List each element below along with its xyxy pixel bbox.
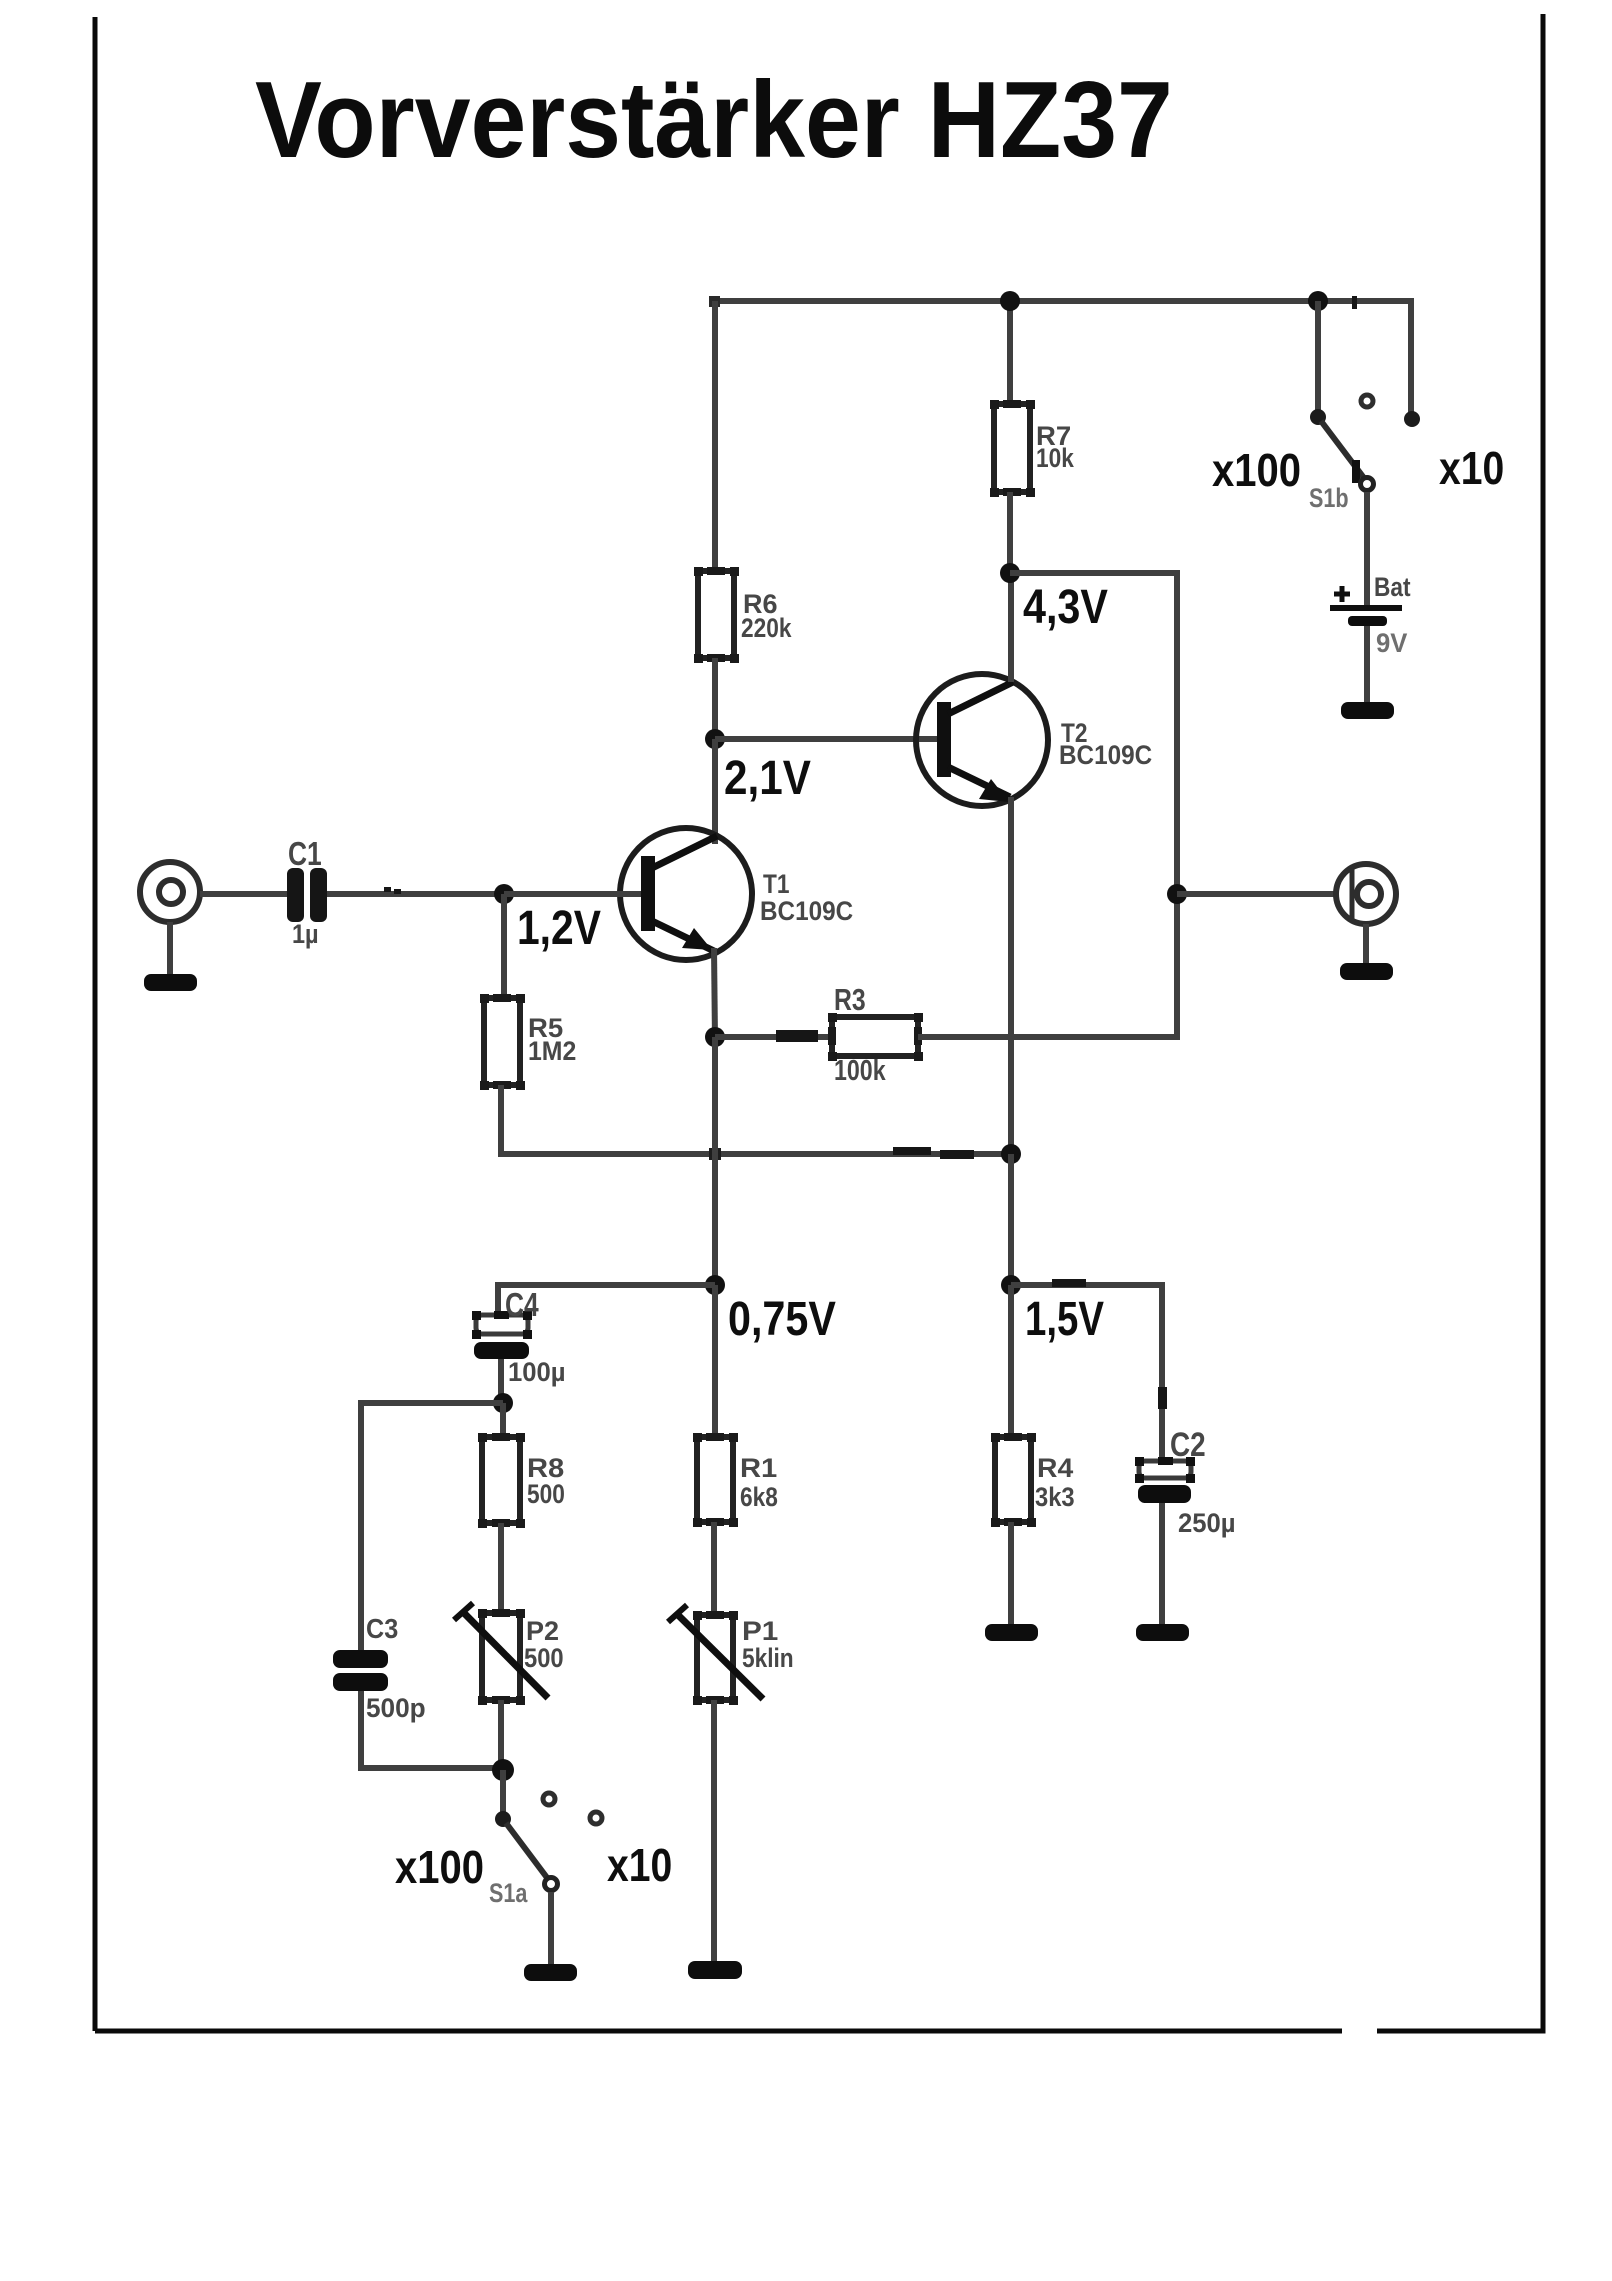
transistor T2 bbox=[916, 674, 1152, 806]
wire output connector ground lead bbox=[1363, 924, 1369, 963]
svg-text:0,75V: 0,75V bbox=[728, 1292, 836, 1346]
svg-text:100k: 100k bbox=[834, 1053, 886, 1086]
svg-text:4,3V: 4,3V bbox=[1023, 580, 1108, 634]
wire R6 top bbox=[712, 301, 718, 575]
node T1 base-T2 junction 2,1V bbox=[705, 729, 725, 749]
wire C3 lower arm bbox=[361, 1691, 503, 1768]
capacitor C4 bbox=[472, 1287, 566, 1387]
wire scan smudge bottom rail bbox=[893, 1147, 974, 1159]
wire R3 left bbox=[715, 1034, 832, 1040]
wire R8 bottom bbox=[498, 1523, 504, 1613]
svg-text:R3: R3 bbox=[834, 982, 866, 1016]
node output junction bbox=[1167, 884, 1187, 904]
svg-text:x10: x10 bbox=[607, 1840, 672, 1892]
svg-text:250µ: 250µ bbox=[1178, 1507, 1236, 1538]
wire C2 bottom bbox=[1159, 1503, 1165, 1624]
svg-text:x100: x100 bbox=[1212, 445, 1301, 496]
border frame bbox=[95, 14, 1543, 2031]
wire S1b to battery bbox=[1364, 492, 1370, 605]
wire R7 bottom bbox=[1007, 492, 1013, 573]
svg-text:S1a: S1a bbox=[489, 1879, 528, 1909]
svg-text:BC109C: BC109C bbox=[760, 897, 853, 926]
capacitor C2 bbox=[1135, 1425, 1236, 1538]
svg-text:BC109C: BC109C bbox=[1059, 741, 1152, 770]
wire R1 bottom bbox=[711, 1522, 717, 1615]
svg-text:C4: C4 bbox=[505, 1287, 539, 1323]
svg-text:C1: C1 bbox=[288, 836, 322, 872]
svg-text:1µ: 1µ bbox=[292, 920, 319, 950]
wire V+ rail bbox=[712, 301, 1411, 413]
wire R4 bottom bbox=[1008, 1522, 1014, 1624]
svg-text:x100: x100 bbox=[395, 1842, 484, 1893]
ground input bbox=[144, 974, 197, 991]
resistor R1 bbox=[693, 1433, 778, 1527]
ground R4 bbox=[985, 1624, 1038, 1641]
node 4,3V junction bbox=[1000, 563, 1020, 583]
switch S1a bbox=[489, 1770, 602, 1909]
node V+ left end bbox=[709, 296, 720, 307]
wire input connector ground lead bbox=[167, 922, 173, 974]
resistor R8 bbox=[478, 1433, 565, 1528]
switch S1b bbox=[1309, 395, 1420, 514]
wire C4 bottom bbox=[498, 1359, 504, 1407]
resistor R5 bbox=[480, 994, 576, 1090]
ground C2 bbox=[1136, 1624, 1189, 1641]
wire R4 top bbox=[1008, 1285, 1014, 1437]
wire S1b pole bbox=[1315, 301, 1321, 413]
svg-text:9V: 9V bbox=[1376, 627, 1408, 658]
wire scan smudge 1,5V bbox=[1052, 1279, 1086, 1287]
wire scan mark bbox=[384, 887, 391, 892]
wire R8 top bbox=[500, 1403, 506, 1437]
ground P1 bbox=[688, 1961, 742, 1979]
wire T1 emitter bbox=[714, 948, 715, 1040]
ground battery bbox=[1341, 702, 1394, 719]
svg-text:220k: 220k bbox=[741, 613, 792, 643]
svg-text:500p: 500p bbox=[366, 1693, 426, 1723]
potentiometer P1 bbox=[668, 1605, 794, 1705]
resistor R6 bbox=[694, 567, 792, 663]
wire collector to output column bbox=[918, 573, 1177, 1037]
svg-text:5klin: 5klin bbox=[742, 1643, 794, 1673]
node 0,75V junction bbox=[705, 1275, 725, 1295]
capacitor C1 bbox=[287, 836, 327, 949]
svg-text:500: 500 bbox=[524, 1644, 564, 1674]
svg-text:1,5V: 1,5V bbox=[1025, 1293, 1104, 1346]
wire R5 bottom + feedback bottom rail bbox=[501, 1085, 1011, 1154]
wire 0,75V to C4 bbox=[498, 1285, 715, 1321]
wire scan smudge R3 left bbox=[776, 1030, 818, 1042]
wire R7 top bbox=[1007, 301, 1013, 404]
capacitor C3 bbox=[333, 1613, 426, 1723]
svg-text:C3: C3 bbox=[366, 1613, 398, 1645]
wire T1 base bbox=[504, 891, 641, 897]
wire T1 collector bbox=[712, 739, 718, 844]
node C3 top junction bbox=[493, 1393, 513, 1413]
node T1 base 1,2V bbox=[494, 884, 514, 904]
svg-text:100µ: 100µ bbox=[508, 1356, 566, 1387]
wire S1a to ground bbox=[548, 1892, 554, 1964]
wire to output connector bbox=[1177, 891, 1338, 897]
resistor R3 bbox=[828, 982, 923, 1086]
svg-text:Bat: Bat bbox=[1374, 572, 1411, 602]
node R3 left junction bbox=[705, 1027, 725, 1047]
battery Bat 9V bbox=[1330, 572, 1411, 658]
wire T2 emitter lower bbox=[1008, 1154, 1014, 1288]
wire T1 emitter lower bbox=[712, 1037, 718, 1288]
wire scan mark C2 top bbox=[1158, 1387, 1167, 1409]
resistor R4 bbox=[991, 1433, 1075, 1527]
ground output bbox=[1340, 963, 1393, 980]
wire T2 base bbox=[715, 736, 937, 742]
svg-text:P1: P1 bbox=[742, 1616, 778, 1646]
transistor T1 bbox=[620, 828, 853, 960]
node 1,5V junction bbox=[1001, 1275, 1021, 1295]
potentiometer P2 bbox=[454, 1603, 564, 1705]
svg-text:1,2V: 1,2V bbox=[517, 902, 601, 955]
resistor R7 bbox=[990, 400, 1074, 497]
svg-text:C2: C2 bbox=[1170, 1425, 1206, 1463]
svg-text:2,1V: 2,1V bbox=[724, 750, 811, 804]
svg-text:x10: x10 bbox=[1439, 443, 1504, 495]
wire scan tick V+ bbox=[1352, 296, 1357, 309]
svg-text:R1: R1 bbox=[740, 1453, 777, 1483]
svg-text:6k8: 6k8 bbox=[740, 1482, 778, 1512]
wire R1 top bbox=[712, 1285, 718, 1437]
svg-text:Vorverstärker HZ37: Vorverstärker HZ37 bbox=[255, 59, 1173, 181]
wire P1 bottom bbox=[711, 1700, 717, 1961]
wire P2 bottom bbox=[498, 1700, 504, 1770]
svg-text:1M2: 1M2 bbox=[528, 1037, 576, 1066]
svg-text:500: 500 bbox=[527, 1479, 565, 1509]
ground S1a bbox=[524, 1964, 577, 1981]
wire R6 bottom bbox=[712, 658, 718, 743]
node V+ S1b junction bbox=[1308, 291, 1328, 311]
wire C1 to base node bbox=[327, 891, 504, 897]
node S1a junction bbox=[492, 1759, 514, 1781]
wire battery to ground bbox=[1364, 626, 1370, 702]
wire T2 collector bbox=[1008, 573, 1014, 682]
svg-text:T1: T1 bbox=[763, 869, 790, 899]
svg-text:10k: 10k bbox=[1036, 443, 1074, 473]
svg-text:S1b: S1b bbox=[1309, 484, 1349, 514]
output connector bbox=[1336, 864, 1396, 924]
node V+ R7 junction bbox=[1000, 291, 1020, 311]
wire R5 top bbox=[501, 894, 507, 998]
node bottom rail right junction bbox=[1001, 1144, 1021, 1164]
wire input connector to C1 bbox=[200, 891, 287, 897]
svg-text:P2: P2 bbox=[526, 1616, 559, 1646]
input connector bbox=[140, 862, 200, 922]
svg-text:R4: R4 bbox=[1037, 1453, 1074, 1483]
node emitter cross bbox=[709, 1148, 721, 1160]
wire T2 emitter bbox=[1008, 797, 1014, 1157]
wire C3 top arm bbox=[361, 1403, 503, 1650]
wire 1,5V to C2 bbox=[1011, 1285, 1162, 1461]
svg-text:3k3: 3k3 bbox=[1035, 1483, 1075, 1513]
